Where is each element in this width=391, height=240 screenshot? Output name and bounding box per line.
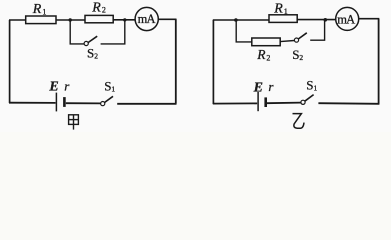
label yi (乙) drawn glyph — [293, 114, 305, 129]
svg-text:R: R — [273, 1, 283, 16]
wire R1 to R2 — [56, 19, 85, 21]
svg-text:1: 1 — [111, 85, 115, 94]
wire left vertical (right circuit) — [212, 20, 214, 104]
wire ammeter to right corner — [359, 18, 380, 20]
node C (junction left of parallel branch) — [234, 18, 238, 22]
wire top-left segment to R1 — [9, 19, 26, 21]
wire R1 to ammeter — [297, 19, 335, 21]
svg-text:1: 1 — [284, 7, 288, 16]
svg-text:E: E — [253, 80, 263, 95]
wire switch S2 to branch right vertical, up to node B — [101, 20, 125, 44]
wire switch S1 to bottom-right corner — [117, 103, 176, 105]
svg-text:2: 2 — [299, 53, 303, 62]
svg-text:R: R — [91, 0, 101, 15]
wire battery to switch S1 (right circuit) — [267, 102, 301, 105]
wire branch down from node A — [70, 20, 84, 44]
wire R2 to ammeter — [113, 19, 135, 21]
wire branch down from node C — [236, 20, 252, 42]
svg-text:R: R — [32, 2, 42, 17]
wire bottom-left segment to battery — [9, 102, 56, 104]
svg-text:1: 1 — [314, 84, 318, 93]
node A (junction left of parallel branch) — [69, 18, 72, 21]
svg-text:R: R — [256, 47, 266, 62]
svg-text:mA: mA — [337, 13, 355, 27]
node B (junction right of parallel branch) — [123, 18, 126, 21]
wire right vertical (right circuit) — [378, 19, 380, 105]
wire bottom-left segment to battery (right circuit) — [213, 102, 257, 104]
node D (junction right of parallel branch) — [324, 18, 328, 22]
switch S2 (right circuit) — [294, 33, 306, 42]
wire switch S1 to bottom-right corner (right circuit) — [318, 102, 379, 105]
svg-text:mA: mA — [138, 12, 156, 26]
ammeter mA (right circuit) — [336, 7, 359, 30]
svg-text:S: S — [292, 47, 299, 62]
resistor R2 (right circuit) — [252, 38, 280, 46]
wire left vertical (left circuit) — [9, 20, 11, 103]
wire battery to switch S1 — [66, 102, 101, 104]
svg-text:E: E — [48, 80, 58, 95]
switch S2 (left circuit) — [84, 36, 97, 45]
wire R2 to switch S2 — [280, 41, 294, 42]
resistor R1 (right circuit) — [269, 15, 297, 23]
svg-text:1: 1 — [42, 7, 46, 16]
switch S1 (left circuit) — [101, 96, 113, 105]
label jia (甲) drawn glyph — [69, 115, 79, 130]
wire top segment to R1 — [213, 19, 269, 21]
switch S1 (right circuit) — [301, 95, 314, 105]
battery E r (right circuit) — [258, 92, 266, 111]
ammeter mA (left circuit) — [135, 7, 158, 30]
svg-text:S: S — [87, 46, 94, 61]
svg-text:2: 2 — [266, 53, 270, 62]
resistor R2 — [85, 15, 113, 22]
wire right vertical (left circuit) — [175, 19, 177, 103]
svg-text:S: S — [104, 78, 111, 93]
resistor R1 — [26, 16, 56, 24]
svg-text:2: 2 — [94, 52, 98, 61]
svg-text:2: 2 — [102, 6, 106, 15]
wire ammeter to right corner — [158, 18, 176, 20]
svg-text:S: S — [306, 77, 313, 92]
wire switch S2 to branch right vertical, up to node D — [310, 20, 324, 40]
battery E r (left circuit) — [56, 93, 64, 112]
